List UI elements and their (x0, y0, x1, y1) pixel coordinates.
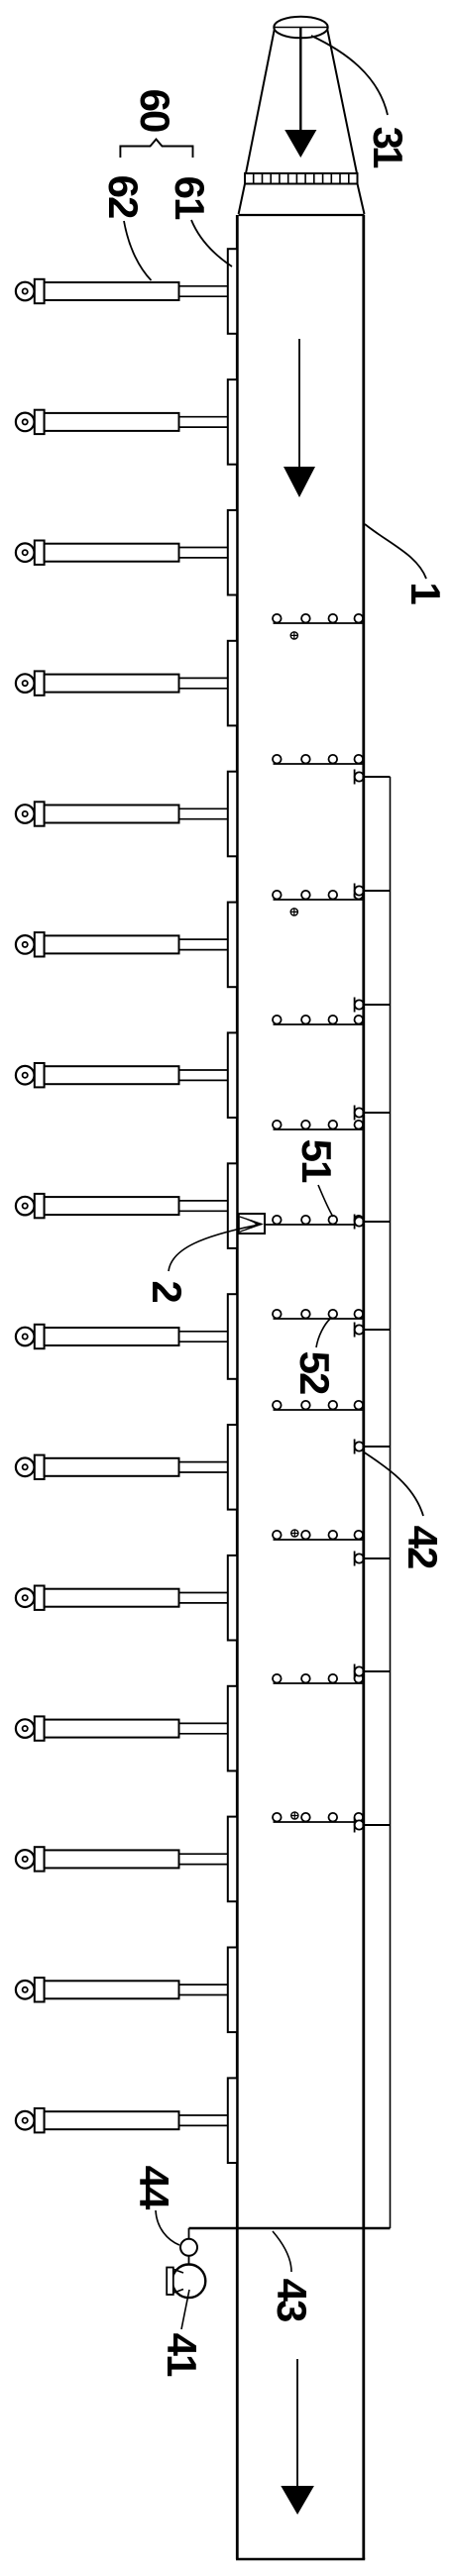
svg-text:43: 43 (269, 2279, 315, 2321)
channel body 1 top wall (239, 214, 365, 216)
leader 1 (365, 524, 426, 579)
hopper funnel 31 (246, 17, 357, 173)
channel body 1 bottom wall (236, 2558, 365, 2561)
manifold branch 7 (355, 1440, 391, 1454)
nozzle row 5 (51/52) (273, 1121, 364, 1129)
mounting pad 61 unit 7 (228, 1032, 237, 1118)
pump riser 44 (180, 2228, 197, 2265)
vent marker on row 9 (291, 1530, 298, 1537)
mounting pad 61 unit 13 (228, 1817, 237, 1902)
hydraulic cylinder 62 unit 2 (16, 410, 228, 434)
svg-text:1: 1 (402, 582, 449, 604)
hydraulic cylinder 62 unit 8 (16, 1194, 228, 1218)
hydraulic cylinder 62 unit 11 (16, 1586, 228, 1610)
svg-text:2: 2 (144, 1280, 190, 1302)
hydraulic cylinder 62 unit 4 (16, 671, 228, 695)
nozzle row 9 (51/52) (273, 1531, 364, 1540)
mounting pad 61 unit 6 (228, 903, 237, 988)
svg-text:31: 31 (365, 127, 411, 168)
mounting pad 61 unit 4 (228, 641, 237, 726)
leader 52 (316, 1319, 330, 1347)
discharge pipe 43 top line (189, 2227, 391, 2229)
mounting pad 61 unit 1 (228, 249, 237, 334)
leader 2 (169, 1225, 262, 1272)
manifold branch 9 (355, 1664, 391, 1679)
hydraulic cylinder 62 unit 14 (16, 1978, 228, 2001)
leader 42 (363, 1451, 423, 1516)
leader 62 (124, 221, 152, 280)
mounting pad 61 unit 12 (228, 1686, 237, 1771)
svg-text:51: 51 (293, 1139, 340, 1183)
nozzle row 4 (51/52) (273, 1016, 364, 1024)
hydraulic cylinder 62 unit 6 (16, 932, 228, 956)
svg-text:41: 41 (159, 2333, 205, 2377)
mounting pad 61 unit 11 (228, 1556, 237, 1641)
mounting pad 61 unit 9 (228, 1294, 237, 1379)
hopper screen grate (239, 173, 365, 214)
feed arrow into hopper (284, 28, 316, 158)
mounting pad 61 unit 2 (228, 379, 237, 465)
manifold branch 6 (355, 1323, 391, 1338)
vent marker on row 3 (290, 909, 297, 915)
svg-text:60: 60 (132, 89, 178, 132)
svg-text:44: 44 (131, 2166, 177, 2210)
nozzle row 11 (51/52) (273, 1813, 364, 1822)
nozzle row 1 (51/52) (273, 614, 364, 623)
svg-text:62: 62 (100, 175, 147, 218)
hydraulic cylinder 62 unit 9 (16, 1325, 228, 1348)
svg-text:42: 42 (399, 1526, 446, 1568)
hydraulic cylinder 62 unit 15 (16, 2108, 228, 2132)
channel body 1 left wall (236, 215, 239, 2559)
manifold pipe 42 outer line (390, 777, 392, 2228)
nozzle row 2 (51/52) (273, 755, 364, 764)
channel body 1 right wall (362, 215, 365, 2559)
svg-text:61: 61 (167, 176, 213, 220)
hydraulic cylinder 62 unit 13 (16, 1847, 228, 1871)
manifold branch 2 (355, 884, 391, 899)
manifold branch 3 (355, 998, 391, 1013)
nozzle row 6 (51/52) (265, 1216, 364, 1225)
manifold branch 1 (355, 770, 391, 785)
mounting pad 61 unit 3 (228, 510, 237, 595)
hydraulic cylinder 62 unit 7 (16, 1063, 228, 1087)
hydraulic cylinder 62 unit 3 (16, 541, 228, 565)
nozzle row 7 (51/52) (273, 1310, 364, 1319)
wedge deflector 2 (239, 1214, 265, 1234)
leader 43 (273, 2231, 291, 2272)
mounting pad 61 unit 8 (228, 1163, 237, 1248)
vent marker on row 11 (291, 1812, 298, 1819)
manifold branch 4 (355, 1106, 391, 1121)
mounting pad 61 unit 5 (228, 772, 237, 857)
svg-text:52: 52 (291, 1351, 338, 1394)
flow arrow channel bottom (281, 2359, 314, 2515)
leader 44 (156, 2210, 179, 2245)
nozzle row 10 (51/52) (273, 1674, 364, 1683)
flow arrow channel top (284, 339, 315, 497)
hydraulic cylinder 62 unit 10 (16, 1455, 228, 1479)
mounting pad 61 unit 14 (228, 1948, 237, 2033)
vent marker on row 1 (290, 632, 297, 639)
leader 51 (318, 1185, 333, 1217)
manifold branch 8 (355, 1552, 391, 1566)
leader 31 (311, 36, 388, 115)
manifold branch 5 (355, 1215, 391, 1230)
nozzle row 3 (51/52) (273, 891, 364, 900)
hydraulic cylinder 62 unit 5 (16, 802, 228, 825)
hydraulic cylinder 62 unit 1 (16, 279, 228, 303)
leader 41 (181, 2290, 189, 2329)
pump 41 (167, 2265, 205, 2299)
mounting pad 61 unit 10 (228, 1425, 237, 1510)
nozzle row 8 (51/52) (273, 1401, 364, 1410)
mounting pad 61 unit 15 (228, 2078, 237, 2163)
manifold branch 10 (355, 1818, 391, 1833)
bracket for 60 (120, 140, 192, 159)
hydraulic cylinder 62 unit 12 (16, 1716, 228, 1740)
leader 61 (191, 220, 232, 267)
